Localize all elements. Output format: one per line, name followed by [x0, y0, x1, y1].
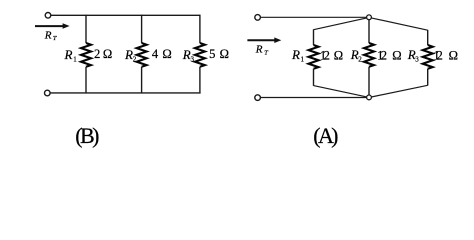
svg-text:12: 12: [320, 48, 330, 62]
svg-text:2: 2: [94, 47, 100, 61]
svg-text:2: 2: [133, 56, 137, 64]
resistor R1 (A) zigzag: [309, 45, 319, 69]
value 12 ohm branch2 (A): [377, 48, 401, 62]
arrow R_T (B): [35, 23, 70, 29]
wire: top rail (B): [51, 14, 200, 16]
wire: branch 2 bottom lead (A): [368, 67, 370, 95]
wire: branch 1 top lead (A): [313, 29, 315, 45]
wire: bottom feed (A): [261, 97, 367, 99]
svg-text:T: T: [264, 50, 268, 57]
resistor R1 (B) zigzag: [81, 43, 91, 67]
svg-text:Ω: Ω: [449, 48, 458, 62]
svg-text:3: 3: [415, 56, 419, 64]
svg-text:Ω: Ω: [103, 47, 112, 61]
wire: branch 3 top lead (B) = right edge: [199, 15, 201, 43]
svg-text:Ω: Ω: [392, 48, 401, 62]
terminal bottom-left (B): [45, 90, 51, 96]
svg-text:(A): (A): [313, 123, 338, 148]
value 12 ohm branch3 (A): [433, 48, 458, 62]
svg-text:Ω: Ω: [334, 48, 343, 62]
node top (A): [367, 15, 372, 20]
wire: top feed (A): [261, 16, 367, 18]
svg-text:3: 3: [191, 56, 195, 64]
wire: branch 1 bottom lead (B): [85, 67, 87, 93]
wire: branch 2 top lead (A): [368, 20, 370, 43]
label R2 (A): [350, 47, 363, 64]
wire: branch 1 bottom lead (A): [313, 69, 315, 86]
svg-text:5: 5: [209, 47, 215, 61]
arrow R_T (A): [247, 37, 281, 43]
svg-text:R: R: [44, 29, 52, 41]
wire: branch 2 bottom lead (B): [141, 67, 143, 93]
wire: fan bottom-left from branch 1 (A): [314, 86, 367, 97]
label R1 (A): [291, 47, 305, 64]
svg-text:12: 12: [377, 48, 387, 62]
resistor R3 (A) zigzag: [423, 45, 433, 69]
wire: branch 3 bottom lead (B): [199, 67, 201, 93]
svg-text:(B): (B): [75, 123, 99, 148]
wire: branch 3 top lead (A): [427, 30, 429, 45]
value 12 ohm branch1 (A): [320, 48, 343, 62]
svg-text:Ω: Ω: [220, 47, 229, 61]
svg-text:1: 1: [301, 56, 305, 64]
label R3 (B): [182, 47, 195, 64]
svg-text:12: 12: [433, 48, 442, 62]
resistor R3 (B) zigzag: [195, 43, 205, 67]
value 2 ohm (B): [94, 47, 112, 61]
svg-text:T: T: [53, 35, 57, 42]
svg-text:R: R: [64, 47, 73, 62]
terminal top-left (A): [255, 15, 261, 21]
wire: fan bottom-right from branch 3 (A): [371, 85, 427, 97]
svg-text:R: R: [182, 47, 191, 62]
svg-text:1: 1: [73, 56, 77, 64]
value 4 ohm (B): [152, 47, 172, 61]
value 5 ohm (B): [209, 47, 229, 61]
label R_T (A): [255, 44, 268, 57]
label R_T (B): [44, 29, 57, 42]
svg-text:2: 2: [358, 56, 362, 64]
terminal top-left (B): [45, 13, 51, 19]
wire: branch 1 top lead (B): [85, 15, 87, 43]
terminal bottom-left (A): [255, 95, 261, 101]
svg-text:R: R: [255, 44, 263, 56]
svg-text:R: R: [291, 47, 300, 62]
svg-text:R: R: [124, 47, 133, 62]
resistor R2 (A) zigzag: [364, 43, 374, 67]
label R1 (B): [64, 47, 78, 64]
wire: branch 3 bottom lead (A): [427, 69, 429, 86]
node bottom (A): [367, 95, 372, 100]
svg-text:4: 4: [152, 47, 159, 61]
resistor R2 (B) zigzag: [137, 43, 147, 67]
wire: fan top-left to branch 1 (A): [314, 18, 367, 30]
wire: branch 2 top lead (B): [141, 15, 143, 43]
wire: fan top-right to branch 3 (A): [371, 18, 428, 30]
label R3 (A): [407, 47, 420, 64]
svg-text:Ω: Ω: [162, 47, 171, 61]
label R2 (B): [124, 47, 137, 64]
wire: bottom rail (B): [50, 92, 200, 94]
